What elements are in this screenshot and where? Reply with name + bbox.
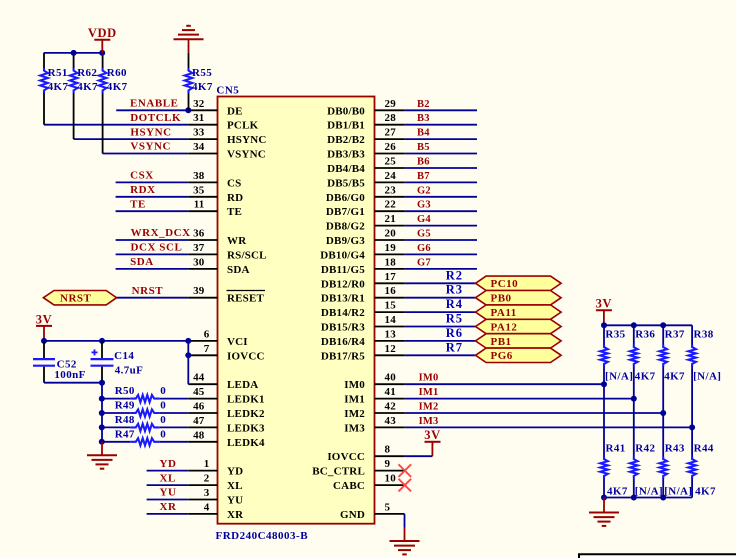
- svg-text:18: 18: [385, 256, 397, 268]
- svg-text:13: 13: [385, 328, 397, 340]
- svg-text:NRST: NRST: [132, 285, 164, 297]
- svg-text:3V: 3V: [36, 312, 52, 326]
- svg-text:0: 0: [160, 385, 166, 397]
- svg-text:SDA: SDA: [130, 256, 154, 268]
- svg-text:B6: B6: [417, 157, 430, 168]
- svg-text:IM3: IM3: [344, 422, 365, 434]
- svg-text:SDA: SDA: [227, 264, 250, 276]
- svg-text:IM3: IM3: [419, 416, 439, 427]
- svg-text:HSYNC: HSYNC: [130, 126, 171, 138]
- svg-text:3V: 3V: [596, 297, 612, 311]
- svg-text:VDD: VDD: [88, 26, 117, 40]
- svg-text:B4: B4: [417, 128, 430, 139]
- svg-text:DB13/R1: DB13/R1: [321, 293, 365, 305]
- svg-text:6: 6: [204, 328, 210, 340]
- svg-text:[N/A]: [N/A]: [605, 371, 633, 383]
- svg-text:47: 47: [193, 415, 205, 427]
- svg-text:RS/SCL: RS/SCL: [227, 249, 267, 261]
- svg-text:DB7/G1: DB7/G1: [326, 206, 365, 218]
- svg-text:[N/A]: [N/A]: [664, 486, 692, 498]
- svg-text:R5: R5: [446, 312, 463, 326]
- svg-text:21: 21: [385, 213, 396, 225]
- svg-text:45: 45: [193, 386, 205, 398]
- svg-text:VSYNC: VSYNC: [227, 149, 266, 161]
- svg-text:0: 0: [160, 400, 166, 412]
- svg-text:CS: CS: [227, 177, 241, 189]
- svg-text:0: 0: [160, 414, 166, 426]
- svg-text:B7: B7: [417, 171, 430, 182]
- svg-text:G3: G3: [417, 200, 431, 211]
- svg-text:R48: R48: [115, 414, 135, 426]
- svg-text:19: 19: [385, 242, 397, 254]
- svg-text:17: 17: [385, 271, 397, 283]
- svg-text:DB10/G4: DB10/G4: [320, 249, 365, 261]
- svg-text:LEDK4: LEDK4: [227, 437, 265, 449]
- svg-text:RDX: RDX: [130, 184, 155, 196]
- svg-text:32: 32: [193, 98, 205, 110]
- svg-text:R7: R7: [446, 340, 463, 354]
- svg-text:42: 42: [385, 401, 397, 413]
- svg-text:R55: R55: [192, 67, 212, 79]
- svg-text:R36: R36: [635, 328, 655, 340]
- svg-text:R51: R51: [48, 67, 68, 79]
- svg-text:R62: R62: [77, 67, 97, 79]
- svg-text:4K7: 4K7: [192, 81, 213, 93]
- svg-text:R38: R38: [694, 328, 714, 340]
- svg-text:IM0: IM0: [419, 373, 439, 384]
- svg-text:28: 28: [385, 112, 397, 124]
- svg-text:39: 39: [193, 285, 205, 297]
- svg-text:DB3/B3: DB3/B3: [327, 149, 365, 161]
- svg-text:9: 9: [385, 458, 391, 470]
- svg-text:DB6/G0: DB6/G0: [326, 192, 365, 204]
- svg-text:37: 37: [193, 242, 205, 254]
- svg-text:LEDA: LEDA: [227, 379, 258, 391]
- svg-text:31: 31: [193, 112, 204, 124]
- svg-text:0: 0: [160, 428, 166, 440]
- svg-text:38: 38: [193, 170, 205, 182]
- svg-text:4K7: 4K7: [695, 486, 716, 498]
- svg-text:DB0/B0: DB0/B0: [327, 105, 365, 117]
- svg-text:GND: GND: [340, 509, 365, 521]
- svg-text:DB5/B5: DB5/B5: [327, 177, 365, 189]
- svg-text:29: 29: [385, 98, 397, 110]
- svg-text:14: 14: [385, 314, 397, 326]
- svg-text:26: 26: [385, 141, 397, 153]
- svg-text:YD: YD: [227, 466, 243, 478]
- svg-text:R43: R43: [665, 443, 685, 455]
- svg-text:5: 5: [385, 501, 391, 513]
- svg-text:R42: R42: [635, 443, 655, 455]
- svg-text:R2: R2: [446, 268, 463, 282]
- svg-text:XL: XL: [160, 472, 176, 484]
- svg-text:DB17/R5: DB17/R5: [321, 350, 365, 362]
- svg-text:4K7: 4K7: [107, 81, 128, 93]
- svg-text:4K7: 4K7: [635, 371, 656, 383]
- svg-text:YU: YU: [227, 495, 243, 507]
- svg-text:7: 7: [204, 343, 210, 355]
- svg-text:4K7: 4K7: [664, 371, 685, 383]
- svg-text:R6: R6: [446, 326, 463, 340]
- svg-text:3V: 3V: [424, 428, 440, 442]
- svg-text:G7: G7: [417, 257, 431, 268]
- svg-text:DE: DE: [227, 105, 243, 117]
- svg-text:NRST: NRST: [60, 293, 92, 305]
- svg-text:41: 41: [385, 386, 396, 398]
- svg-text:DB8/G2: DB8/G2: [326, 221, 365, 233]
- svg-text:DB11/G5: DB11/G5: [321, 264, 365, 276]
- svg-text:4: 4: [204, 501, 210, 513]
- svg-text:DB1/B1: DB1/B1: [327, 120, 365, 132]
- svg-text:WRX_DCX: WRX_DCX: [131, 227, 191, 239]
- svg-text:10: 10: [385, 473, 397, 485]
- svg-text:DOTCLK: DOTCLK: [130, 112, 181, 124]
- svg-text:1: 1: [204, 458, 210, 470]
- svg-text:DB2/B2: DB2/B2: [327, 134, 365, 146]
- svg-text:27: 27: [385, 127, 397, 139]
- svg-text:DB9/G3: DB9/G3: [326, 235, 365, 247]
- svg-text:G6: G6: [417, 243, 431, 254]
- svg-text:PCLK: PCLK: [227, 120, 259, 132]
- svg-text:R41: R41: [606, 443, 626, 455]
- svg-text:PA12: PA12: [491, 321, 518, 333]
- svg-text:YU: YU: [160, 487, 177, 499]
- svg-text:R49: R49: [115, 400, 135, 412]
- svg-text:LEDK1: LEDK1: [227, 394, 265, 406]
- svg-text:IM2: IM2: [344, 408, 365, 420]
- svg-text:R37: R37: [665, 328, 685, 340]
- svg-text:IM1: IM1: [344, 394, 365, 406]
- svg-text:WR: WR: [227, 235, 247, 247]
- svg-text:R3: R3: [446, 283, 463, 297]
- svg-text:IOVCC: IOVCC: [327, 451, 365, 463]
- svg-text:LEDK3: LEDK3: [227, 422, 265, 434]
- svg-text:G5: G5: [417, 229, 431, 240]
- svg-text:PB1: PB1: [491, 336, 512, 348]
- svg-text:IOVCC: IOVCC: [227, 350, 265, 362]
- svg-text:G2: G2: [417, 185, 431, 196]
- svg-text:VCI: VCI: [227, 336, 248, 348]
- svg-text:48: 48: [193, 429, 205, 441]
- svg-text:4.7uF: 4.7uF: [115, 365, 144, 377]
- svg-text:XL: XL: [227, 480, 243, 492]
- svg-text:15: 15: [385, 300, 397, 312]
- svg-text:R35: R35: [605, 328, 625, 340]
- svg-text:B2: B2: [417, 99, 430, 110]
- svg-text:30: 30: [193, 256, 205, 268]
- svg-text:46: 46: [193, 401, 205, 413]
- svg-text:B3: B3: [417, 113, 430, 124]
- svg-text:33: 33: [193, 127, 205, 139]
- svg-text:DB4/B4: DB4/B4: [327, 163, 365, 175]
- svg-text:PG6: PG6: [491, 350, 513, 362]
- svg-text:DB12/R0: DB12/R0: [321, 278, 365, 290]
- svg-text:24: 24: [385, 170, 397, 182]
- svg-text:PC10: PC10: [491, 278, 519, 290]
- svg-text:8: 8: [385, 444, 391, 456]
- svg-text:RESET: RESET: [227, 293, 265, 305]
- svg-text:100nF: 100nF: [54, 369, 85, 381]
- svg-text:LEDK2: LEDK2: [227, 408, 265, 420]
- svg-text:TE: TE: [227, 206, 242, 218]
- svg-text:DB14/R2: DB14/R2: [321, 307, 365, 319]
- svg-text:44: 44: [193, 372, 205, 384]
- svg-text:2: 2: [204, 473, 210, 485]
- svg-text:36: 36: [193, 228, 205, 240]
- svg-text:DB15/R3: DB15/R3: [321, 322, 365, 334]
- svg-text:IM2: IM2: [419, 402, 439, 413]
- svg-text:CABC: CABC: [333, 480, 365, 492]
- svg-text:BC_CTRL: BC_CTRL: [312, 466, 365, 478]
- svg-text:R60: R60: [107, 67, 127, 79]
- svg-text:[N/A]: [N/A]: [693, 371, 721, 383]
- svg-text:23: 23: [385, 184, 397, 196]
- svg-text:40: 40: [385, 372, 397, 384]
- svg-text:R4: R4: [446, 297, 463, 311]
- svg-text:XR: XR: [160, 501, 177, 513]
- svg-text:22: 22: [385, 199, 397, 211]
- svg-text:R50: R50: [115, 385, 135, 397]
- svg-text:FRD240C48003-B: FRD240C48003-B: [216, 530, 309, 542]
- svg-text:35: 35: [193, 184, 205, 196]
- svg-text:IM0: IM0: [344, 379, 365, 391]
- svg-text:ENABLE: ENABLE: [130, 98, 179, 110]
- svg-text:11: 11: [194, 199, 205, 211]
- svg-text:4K7: 4K7: [77, 81, 98, 93]
- svg-text:RD: RD: [227, 192, 243, 204]
- svg-text:DB16/R4: DB16/R4: [321, 336, 365, 348]
- svg-text:3: 3: [204, 487, 210, 499]
- svg-text:YD: YD: [160, 458, 177, 470]
- svg-text:12: 12: [385, 343, 397, 355]
- svg-text:PA11: PA11: [491, 307, 517, 319]
- svg-text:VSYNC: VSYNC: [130, 141, 171, 153]
- svg-text:TE: TE: [130, 198, 146, 210]
- svg-text:16: 16: [385, 285, 397, 297]
- svg-text:DCX SCL: DCX SCL: [131, 242, 183, 254]
- svg-text:4K7: 4K7: [607, 486, 628, 498]
- svg-text:C14: C14: [114, 350, 134, 362]
- svg-text:CSX: CSX: [130, 170, 154, 182]
- svg-text:[N/A]: [N/A]: [635, 486, 663, 498]
- svg-text:20: 20: [385, 228, 397, 240]
- svg-text:R44: R44: [694, 443, 714, 455]
- svg-text:G4: G4: [417, 214, 431, 225]
- svg-text:IM1: IM1: [419, 387, 439, 398]
- svg-text:CN5: CN5: [216, 85, 239, 97]
- svg-text:XR: XR: [227, 509, 244, 521]
- svg-text:R47: R47: [115, 428, 135, 440]
- svg-text:PB0: PB0: [491, 293, 512, 305]
- svg-text:43: 43: [385, 415, 397, 427]
- svg-text:HSYNC: HSYNC: [227, 134, 267, 146]
- svg-text:34: 34: [193, 141, 205, 153]
- svg-text:4K7: 4K7: [48, 81, 69, 93]
- svg-text:25: 25: [385, 156, 397, 168]
- svg-text:B5: B5: [417, 142, 430, 153]
